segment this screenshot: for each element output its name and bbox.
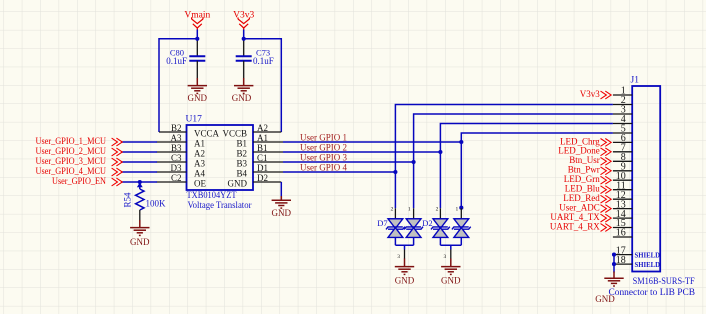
junction GPIO2 column (438, 150, 442, 154)
wire D2 common bar (440, 244, 461, 246)
svg-text:J1: J1 (631, 75, 640, 85)
port chevron Btn_Pwr (601, 167, 612, 175)
svg-text:B1: B1 (236, 138, 247, 148)
svg-text:GND: GND (232, 93, 252, 103)
TVS diode D2 left element (pin 2) (431, 207, 450, 246)
ground under R54 (130, 220, 149, 235)
J1 pin 14 (613, 209, 632, 220)
ground under C73 (234, 78, 253, 93)
directive arrow at R54 (137, 182, 143, 187)
svg-text:SHIELD: SHIELD (635, 250, 661, 259)
junction shield pin18 (612, 262, 616, 266)
wire shield bus (613, 255, 615, 273)
U17 pin C3 (157, 153, 187, 163)
wire User_GPIO_3_MCU to U17.C3 (121, 161, 157, 163)
U17 pin A1 (253, 133, 283, 143)
junction GPIO1 column (459, 140, 463, 144)
svg-text:A1: A1 (194, 138, 205, 148)
wire User_GPIO_EN to U17.C2 (121, 181, 157, 183)
wire User GPIO 3 (U17.C1 to column x413) (283, 161, 414, 163)
J1 pin 13 (613, 199, 632, 210)
port chevron LED_Done (601, 148, 612, 156)
svg-text:3: 3 (444, 254, 447, 260)
U17 pin C1 (253, 153, 283, 163)
svg-text:TXB0104YZT: TXB0104YZT (187, 191, 237, 201)
wire J1 pin4 net (horizontal + drop to D2 left) (440, 124, 613, 209)
svg-text:16: 16 (616, 228, 626, 239)
svg-text:B3: B3 (171, 143, 182, 153)
ground at U17 GND (272, 196, 291, 208)
svg-text:100K: 100K (146, 198, 167, 208)
ground under C80 (188, 78, 207, 93)
wire V3v3 vertical drop (243, 30, 245, 39)
svg-text:User GPIO 4: User GPIO 4 (300, 163, 347, 173)
ground at J1 shield (604, 272, 623, 287)
J1 pin 17 (SHIELD) (614, 245, 661, 259)
svg-text:B3: B3 (236, 158, 247, 168)
connector J1 body (632, 86, 660, 272)
svg-text:A2: A2 (194, 148, 205, 158)
port chevron V3v3 at pin 1 (601, 91, 612, 99)
svg-text:GND: GND (395, 275, 415, 285)
wire User_GPIO_4_MCU to U17.D3 (121, 171, 157, 173)
svg-text:2: 2 (391, 207, 394, 213)
J1 pin 2 (613, 95, 632, 106)
svg-text:VCCA: VCCA (194, 128, 220, 138)
port chevron LED_Chrg (601, 139, 612, 147)
svg-text:A2: A2 (257, 123, 268, 133)
J1 pin 4 (613, 114, 632, 125)
wire User GPIO 4 (U17.D1 to column x395) (283, 171, 395, 173)
U17 pin B3 (157, 143, 187, 153)
svg-text:OE: OE (194, 178, 206, 188)
svg-text:GND: GND (272, 208, 292, 218)
svg-text:A3: A3 (171, 133, 182, 143)
J1 pin 10 (613, 171, 632, 182)
svg-text:D2: D2 (257, 173, 268, 183)
svg-text:B2: B2 (236, 148, 247, 158)
svg-text:GND: GND (188, 93, 208, 103)
port chevron UART_4_RX (601, 224, 612, 232)
port chevron LED_Red (601, 195, 612, 203)
wire User_GPIO_1_MCU to U17.A3 (121, 141, 157, 143)
wire User_GPIO_2_MCU to U17.B3 (121, 151, 157, 153)
svg-text:A3: A3 (194, 158, 205, 168)
junction GPIO4 column (393, 170, 397, 174)
svg-text:18: 18 (616, 255, 626, 266)
svg-text:2: 2 (436, 207, 439, 213)
power port Vmain (192, 17, 203, 30)
svg-text:Connector to LIB PCB: Connector to LIB PCB (609, 287, 696, 297)
svg-text:User_GPIO_3_MCU: User_GPIO_3_MCU (36, 156, 107, 166)
ground under D7 (395, 259, 414, 275)
TVS diode D2 right element (pin 1) (452, 207, 471, 246)
svg-text:GND: GND (441, 275, 461, 285)
svg-text:User_GPIO_EN: User_GPIO_EN (52, 176, 106, 186)
wire R54 top lead (139, 182, 141, 189)
U17 pin A3 (157, 133, 187, 143)
power port V3v3 (238, 17, 249, 30)
svg-text:User GPIO 3: User GPIO 3 (300, 153, 347, 163)
svg-text:User GPIO 2: User GPIO 2 (300, 143, 347, 153)
svg-text:LED_Blu: LED_Blu (565, 184, 600, 194)
wire User GPIO 2 (U17.B1 to column x440) (283, 151, 440, 153)
svg-text:B4: B4 (236, 168, 247, 178)
wire J1 pin3 net (horizontal + drop to D7 right) (414, 114, 613, 208)
svg-text:1: 1 (456, 207, 459, 213)
svg-text:GND: GND (130, 237, 150, 247)
svg-text:VCCB: VCCB (222, 128, 247, 138)
TVS diode D7 left element (pin 2) (386, 207, 405, 246)
port chevron User_GPIO_EN (112, 178, 123, 186)
svg-text:User_GPIO_1_MCU: User_GPIO_1_MCU (36, 136, 107, 146)
U17 pin C2 (OE) (157, 173, 187, 183)
svg-text:User_ADC: User_ADC (559, 203, 600, 213)
port chevron UART_4_TX (601, 214, 612, 222)
svg-text:B2: B2 (171, 123, 182, 133)
U17 pin A2 (VCCB) (253, 123, 281, 133)
port chevron User_GPIO_4_MCU (112, 168, 123, 176)
wire D7 common bar (395, 244, 413, 246)
J1 pin 5 (613, 124, 632, 135)
svg-text:1: 1 (408, 207, 411, 213)
J1 pin 15 (613, 218, 632, 229)
svg-text:A4: A4 (194, 168, 205, 178)
capacitor C73 (236, 56, 252, 78)
svg-text:LED_Grn: LED_Grn (564, 174, 600, 184)
port chevron User_ADC (601, 205, 612, 213)
svg-text:R54: R54 (123, 192, 133, 208)
J1 pin 16 (613, 228, 632, 239)
junction shield pin17 (612, 253, 616, 257)
wire D7 pin 3 (397, 245, 404, 260)
svg-text:SM16B-SURS-TF: SM16B-SURS-TF (633, 277, 695, 287)
port chevron Btn_Usr (601, 157, 612, 165)
wire V3v3 rail to U17 VCCB (244, 39, 282, 132)
J1 pin 8 (613, 152, 632, 163)
svg-text:GND: GND (228, 178, 248, 188)
port chevron LED_Grn (601, 176, 612, 184)
svg-text:C3: C3 (171, 153, 182, 163)
svg-text:B1: B1 (257, 143, 268, 153)
svg-text:V3v3: V3v3 (233, 10, 254, 20)
U17 pin D3 (157, 163, 187, 173)
port chevron LED_Blu (601, 186, 612, 194)
wire R54 bottom lead (139, 210, 141, 221)
J1 pin 18 (SHIELD) (614, 255, 661, 269)
ground under D2 (441, 259, 460, 275)
wire User GPIO 1 (U17.A1 to column x461) (283, 141, 461, 143)
wire Vmain vertical drop (196, 30, 198, 39)
svg-text:C1: C1 (257, 153, 268, 163)
svg-text:D1: D1 (257, 163, 268, 173)
J1 pin 1 (613, 86, 632, 97)
J1 pin 11 (613, 180, 632, 191)
capacitor C80 (189, 56, 205, 78)
port chevron User_GPIO_1_MCU (112, 138, 123, 146)
U17 pin D1 (253, 163, 283, 173)
U17 pin B2 (VCCA) (159, 123, 187, 133)
port chevron User_GPIO_3_MCU (112, 158, 123, 166)
svg-text:LED_Done: LED_Done (558, 146, 600, 156)
U17 pin D2 (GND) (253, 173, 281, 183)
svg-text:SHIELD: SHIELD (635, 260, 661, 269)
svg-text:Voltage Translator: Voltage Translator (188, 201, 253, 211)
junction D2 pin1 top (459, 206, 463, 210)
svg-text:C2: C2 (171, 173, 182, 183)
svg-text:U17: U17 (186, 114, 203, 124)
U17 pin B1 (253, 143, 283, 153)
svg-text:User_GPIO_2_MCU: User_GPIO_2_MCU (36, 146, 107, 156)
wire Vmain rail to U17 VCCA (159, 39, 197, 132)
J1 pin 12 (613, 190, 632, 201)
wire J1 pin2 net (horizontal + drop to D7 left) (395, 105, 613, 209)
svg-text:0.1uF: 0.1uF (253, 56, 274, 66)
wire J1 pin5 net (horizontal + drop to D2 right) (461, 133, 613, 208)
svg-text:User_GPIO_4_MCU: User_GPIO_4_MCU (36, 166, 107, 176)
svg-text:Vmain: Vmain (184, 10, 210, 20)
svg-text:V3v3: V3v3 (580, 89, 600, 99)
svg-text:0.1uF: 0.1uF (166, 56, 187, 66)
TVS diode D7 right element (pin 1) (404, 207, 423, 246)
junction V3v3 (242, 37, 246, 41)
junction Vmain (195, 37, 199, 41)
svg-text:D7: D7 (377, 218, 387, 228)
svg-text:UART_4_RX: UART_4_RX (550, 221, 600, 231)
IC U17 body (187, 125, 254, 190)
junction R54 top (138, 180, 142, 184)
J1 pin 6 (613, 133, 632, 144)
J1 pin 7 (613, 143, 632, 154)
svg-text:User GPIO 1: User GPIO 1 (300, 133, 347, 143)
junction GPIO3 column (412, 160, 416, 164)
svg-text:Btn_Usr: Btn_Usr (569, 155, 600, 165)
svg-text:D3: D3 (171, 163, 182, 173)
port chevron User_GPIO_2_MCU (112, 148, 123, 156)
svg-text:D2: D2 (422, 218, 432, 228)
J1 pin 3 (613, 105, 632, 116)
wire D2 pin 3 (444, 245, 451, 260)
wire U17 GND pin down (280, 182, 282, 200)
resistor R54 (136, 189, 144, 210)
svg-text:A1: A1 (257, 133, 268, 143)
J1 pin 9 (613, 162, 632, 173)
svg-text:3: 3 (397, 254, 400, 260)
